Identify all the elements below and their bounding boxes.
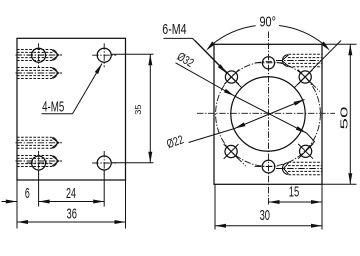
svg-text:36: 36 xyxy=(67,207,77,223)
svg-text:6-M4: 6-M4 xyxy=(162,22,186,38)
svg-text:6: 6 xyxy=(25,186,30,202)
svg-text:35: 35 xyxy=(134,104,143,115)
svg-text:50: 50 xyxy=(338,106,350,129)
svg-text:30: 30 xyxy=(260,208,270,224)
svg-text:24: 24 xyxy=(66,186,76,202)
svg-text:4-M5: 4-M5 xyxy=(42,99,64,115)
svg-text:90°: 90° xyxy=(259,15,276,31)
svg-text:15: 15 xyxy=(289,185,299,201)
